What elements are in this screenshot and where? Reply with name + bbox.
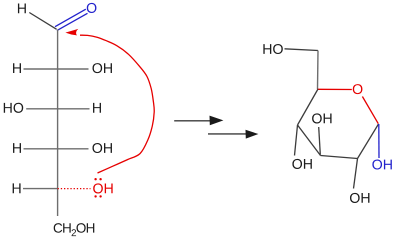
bond H-C1 (aldehyde)	[29, 13, 56, 30]
bond C6-C5 (ring arm vertical)	[317, 51, 320, 90]
ring bond O-C1 (red)	[362, 97, 378, 124]
bond C3 crossbar	[26, 108, 89, 110]
bond C5-OH red dotted	[58, 188, 91, 190]
label OH (anomeric, blue)	[372, 159, 391, 169]
atom H (C2 left)	[13, 63, 21, 73]
atom H (aldehyde H, top left)	[18, 4, 26, 14]
label OH (C2 right)	[92, 63, 111, 73]
label CH2OH (C6)	[54, 223, 95, 236]
label HO (C3 left)	[4, 103, 23, 113]
label OH (C4 left)	[292, 159, 311, 169]
atom H (C4 left)	[13, 143, 21, 153]
bond C4-OH (left, down)	[295, 125, 298, 156]
ring atom O (red)	[353, 84, 363, 94]
lone pair dots below red O	[94, 195, 101, 197]
label OH (C3 inner)	[312, 113, 331, 123]
atom H (C3 right)	[93, 103, 101, 113]
ring bond C3-C4	[298, 125, 321, 156]
label OH (C4 right)	[92, 143, 111, 153]
atom H (C5 left)	[13, 183, 21, 193]
label HO (ring CH2OH group)	[263, 44, 282, 54]
double bond C1=O (blue)	[55, 9, 88, 30]
ring bond C2-C3	[321, 156, 358, 159]
chain vertical backbone C1-C6	[57, 30, 59, 217]
curved red arrow (OH attacks carbonyl)	[80, 35, 154, 173]
red arrowhead at carbonyl carbon	[65, 29, 78, 36]
reaction arrow 2 head	[246, 130, 259, 139]
ring bond C5-O (red)	[318, 88, 352, 90]
bond C1-OH (anomeric, blue)	[378, 124, 380, 158]
ring bond C1-C2	[358, 124, 379, 159]
reaction arrow 1 shaft	[174, 120, 210, 122]
label OH (C5, red, nucleophile)	[93, 183, 112, 193]
bond C3-OH (inner, up)	[319, 127, 321, 155]
bond C2 crossbar	[24, 68, 89, 70]
reaction arrow 1 head	[210, 116, 224, 126]
bond C4 crossbar	[24, 148, 89, 150]
label OH (C2 bottom)	[350, 193, 369, 203]
atom O (aldehyde, blue)	[87, 3, 97, 13]
bond HO-C6 (ring arm horizontal)	[285, 49, 319, 51]
bond C5 crossbar left half	[23, 188, 58, 190]
lone pair dots above red O	[94, 178, 101, 180]
reaction arrow 2 shaft	[208, 133, 247, 135]
ring bond C4-C5	[298, 89, 319, 125]
bond C2-OH (bottom)	[354, 159, 358, 189]
